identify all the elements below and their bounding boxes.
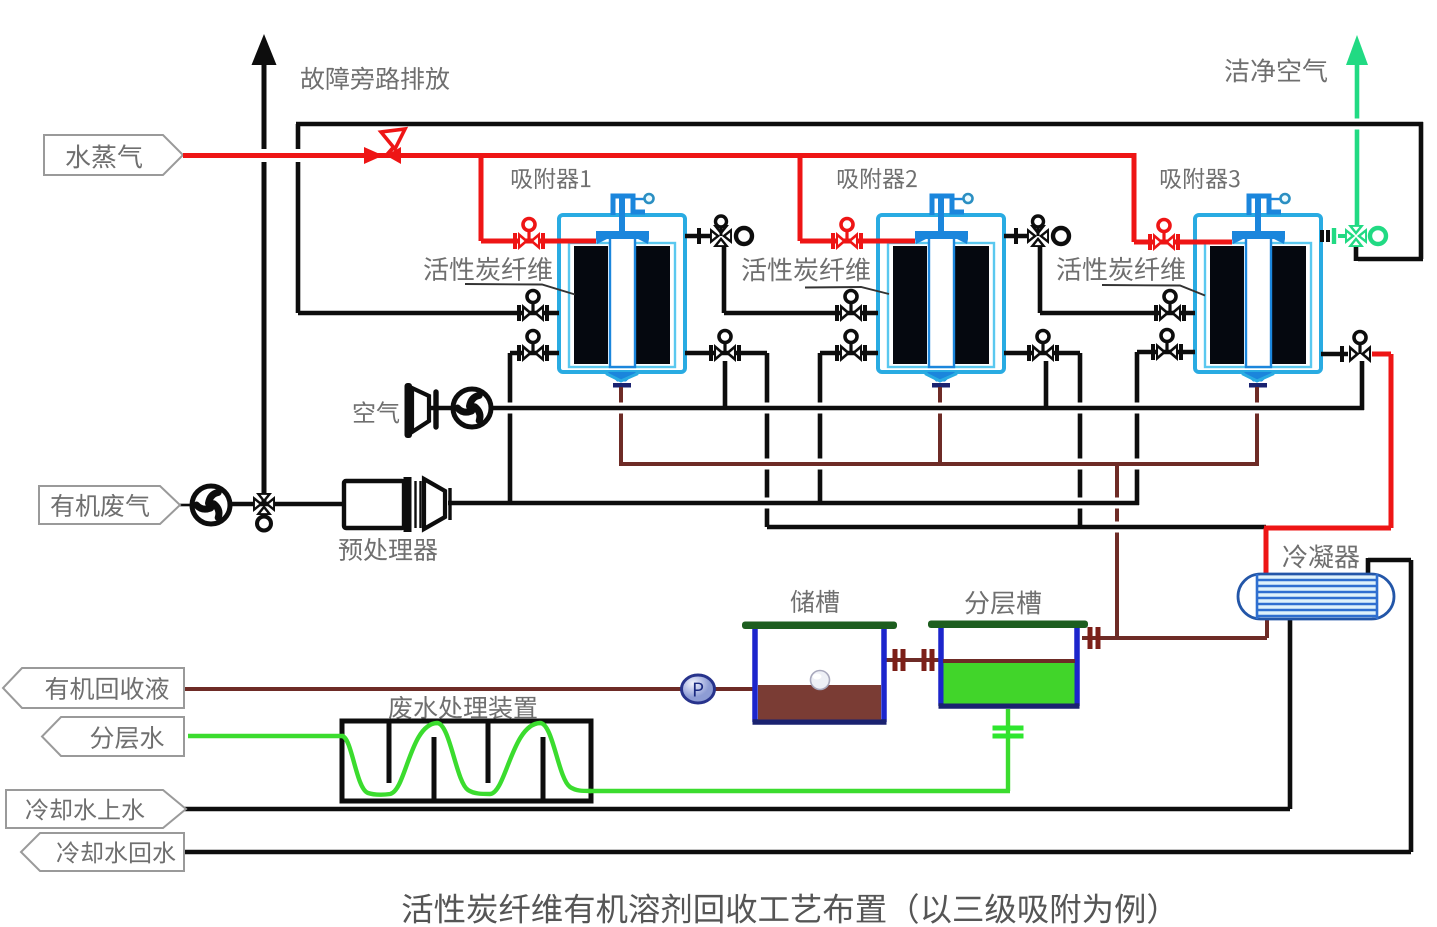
label cooling water supply pentagon <box>6 790 186 828</box>
wire adsorber2 lower-left feed <box>820 353 878 505</box>
vessel 3 carbon bed right <box>1272 246 1306 364</box>
label clean air <box>1225 58 1327 82</box>
wire bypass manifold right drop <box>1356 122 1423 261</box>
label adsorber 1 <box>512 168 590 189</box>
clover 4-way valve at bypass junction <box>253 493 275 531</box>
vessel 1 carbon bed right <box>636 246 670 364</box>
wire adsorber3 lower-right stub <box>1321 346 1348 362</box>
wire cooling water return line <box>184 558 1411 852</box>
wire adsorber2 drain <box>938 387 942 466</box>
label layered water pentagon <box>42 717 184 756</box>
label decanter <box>965 590 1041 614</box>
wire condensate collection line to condenser junction <box>767 525 1266 530</box>
flange pairs between tanks <box>893 649 935 671</box>
valve adsorber1 top-right with end cap <box>699 216 752 247</box>
condenser tube bundle <box>1257 574 1377 619</box>
valve adsorber1 lower-right <box>711 331 739 363</box>
wire condenser outlet to decanter <box>1082 616 1267 638</box>
wire clean air riser <box>1346 35 1368 229</box>
adsorber vessel 1 shell <box>559 215 685 372</box>
vessel 2 top nozzle assembly <box>932 194 973 236</box>
label storage tank <box>791 590 839 613</box>
vessel 2 bottom cone <box>925 372 957 388</box>
wire fault bypass riser <box>252 34 277 503</box>
vessel 3 inner liner <box>1205 243 1311 367</box>
wire layered water line into unit <box>188 734 344 738</box>
valve adsorber1 lower-left <box>519 331 547 363</box>
wire steam branch to adsorber2 <box>800 153 915 241</box>
wire air supply line <box>453 406 1364 411</box>
air intake horn <box>405 383 437 438</box>
valve adsorber3 lower-left <box>1153 330 1181 362</box>
wire storage to decanter transfer <box>884 658 941 662</box>
wastewater box <box>342 721 591 801</box>
label activated carbon fiber 1 <box>424 257 575 295</box>
clean air valve at adsorber3 top-right <box>1322 225 1386 247</box>
decanter green liquid <box>944 663 1075 704</box>
valve adsorber3 lower-right <box>1349 332 1371 364</box>
valve adsorber2 lower-right <box>1029 331 1057 363</box>
label adsorber 3 <box>1161 168 1240 189</box>
wire adsorber1 top-right outlet stub <box>685 234 712 239</box>
wire adsorber2 lower-right branch <box>1004 353 1080 529</box>
vessel 2 center column <box>929 237 954 367</box>
wire cooling water supply line <box>184 616 1290 809</box>
vessel 2 inner liner <box>888 243 994 367</box>
wire adsorber3 lower-left feed <box>1137 352 1195 505</box>
air blower fan <box>453 389 491 427</box>
steam valve adsorber1 <box>515 219 543 251</box>
wire bypass manifold left drop <box>296 124 301 313</box>
vessel 1 bottom cone <box>606 372 638 388</box>
wire adsorber3 drain <box>1255 387 1259 466</box>
pump P <box>682 675 715 703</box>
label cooling water return pentagon <box>21 833 184 871</box>
wire air line riser to adsorber3 valve <box>1360 361 1365 410</box>
wire organic recovery line <box>184 687 757 691</box>
label fault bypass text <box>301 67 449 90</box>
wire organic waste gas line - label to fan <box>179 504 193 507</box>
valve adsorber1 mid-left <box>519 291 547 323</box>
vessel 1 carbon bed left <box>574 246 608 364</box>
label organic waste gas pentagon <box>39 486 180 524</box>
decanter interface line <box>943 659 1075 663</box>
vessel 3 top nozzle assembly <box>1249 194 1290 236</box>
label air <box>354 401 399 423</box>
label adsorber 2 <box>838 168 917 189</box>
label wastewater treatment unit <box>389 696 537 719</box>
label preprocessor <box>339 538 437 561</box>
flange pair condenser-decanter <box>1088 627 1101 649</box>
vessel 1 inner liner <box>569 243 675 367</box>
decanter lid <box>928 621 1088 629</box>
wire steam branch to adsorber3 <box>1134 153 1232 242</box>
vessel 1 center column <box>610 237 635 367</box>
adsorber vessel 3 shell <box>1195 215 1321 372</box>
wire waste gas fan to bypass clover <box>230 502 344 507</box>
float ball <box>811 671 830 690</box>
label condenser <box>1283 544 1359 568</box>
vessel 1 top nozzle assembly <box>613 194 654 236</box>
title caption <box>403 893 1157 924</box>
wire adsorber2 top-right outlet stub <box>1004 234 1029 239</box>
adsorber vessel 2 shell <box>878 215 1004 372</box>
wire bypass manifold top header <box>296 122 1423 127</box>
wire drain drop to decanter line <box>1115 464 1119 640</box>
preprocessor body <box>344 477 450 532</box>
valve adsorber2 lower-left <box>837 331 865 363</box>
storage tank lid <box>742 622 897 630</box>
vessel 2 distributor cap <box>915 231 968 244</box>
vessel 3 bottom cone <box>1242 372 1274 388</box>
vessel 3 distributor cap <box>1232 231 1285 244</box>
steam valve adsorber2 <box>833 219 861 251</box>
condenser shell <box>1238 574 1394 619</box>
vessel 2 carbon bed right <box>955 246 989 364</box>
label steam pentagon <box>44 135 183 175</box>
valve adsorber2 mid-left <box>837 291 865 323</box>
wire adsorber2 outlet down to adsorber3 inlet <box>1040 246 1195 313</box>
wire decanter bottom outlet <box>1006 709 1010 791</box>
wire desorbed vapor line from adsorber3 to condenser <box>1264 354 1391 576</box>
label organic recovery liquid pentagon <box>3 668 184 708</box>
wire horn to blower <box>428 406 455 410</box>
wire steam branch to adsorber1 <box>481 153 596 241</box>
vessel 2 carbon bed left <box>893 246 927 364</box>
label activated carbon fiber 2 <box>742 257 889 294</box>
wire steam main header <box>183 153 1134 158</box>
valve adsorber3 mid-left <box>1156 291 1184 323</box>
valve adsorber2 top-right with end cap <box>1016 216 1069 247</box>
vessel 3 center column <box>1246 237 1271 367</box>
decanter walls <box>939 628 1080 706</box>
storage tank liquid <box>758 685 881 720</box>
flange pair decanter bottom <box>993 726 1024 739</box>
wire layered water squiggle <box>342 723 591 795</box>
wire adsorber1 lower-left feed <box>510 353 559 505</box>
wire adsorber1 lower-right branch <box>685 353 767 527</box>
vessel 1 distributor cap <box>596 231 649 244</box>
wire adsorber1 drain <box>619 387 623 466</box>
steam valve adsorber3 <box>1150 220 1178 252</box>
steam control valve on main <box>364 129 405 164</box>
wire waste gas distribution line <box>448 501 1139 506</box>
wire condensate drain header <box>621 462 1257 466</box>
label activated carbon fiber 3 <box>1057 257 1205 296</box>
wire manifold to adsorber1 mid-left <box>298 311 559 316</box>
wire adsorber1 outlet down to adsorber2 inlet <box>724 246 878 313</box>
wire treated water to decanter bottom <box>589 789 1010 793</box>
vessel 3 carbon bed left <box>1210 246 1244 364</box>
waste gas fan <box>192 486 230 524</box>
storage tank walls <box>753 629 887 722</box>
